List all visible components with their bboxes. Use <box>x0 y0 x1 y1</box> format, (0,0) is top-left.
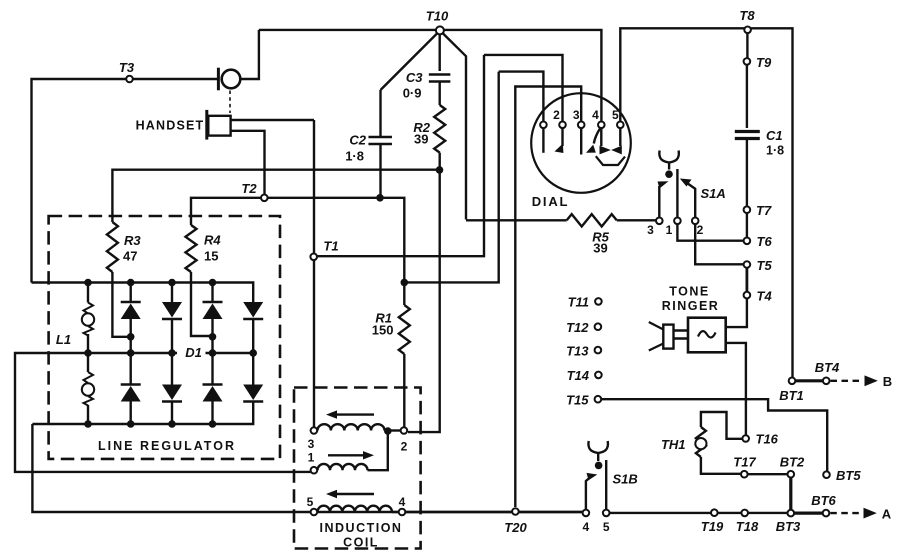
terminal T19 <box>711 509 718 516</box>
wire BT3 to BT6 <box>794 511 822 514</box>
terminal T13 <box>595 347 602 354</box>
svg-text:C2: C2 <box>349 133 366 148</box>
wire mic/T1 vertical down to induction coil terminal 3 <box>313 120 315 427</box>
junction dots bridge middle rail <box>84 349 92 357</box>
terminal T7 <box>744 206 751 213</box>
junction dots bridge top rail <box>84 279 92 287</box>
S1B contact 4 with moving arm <box>583 510 590 517</box>
svg-text:4: 4 <box>592 108 599 122</box>
node C2/T2-wire junction <box>376 194 384 202</box>
svg-text:T17: T17 <box>733 455 756 470</box>
terminal T16 <box>742 435 749 442</box>
S1B contact 5 <box>603 510 610 517</box>
wire T17 to BT2 <box>748 473 788 475</box>
wire T10 diagonal to R5 feed <box>443 34 466 220</box>
dashed handset link <box>229 91 231 114</box>
svg-text:C1: C1 <box>766 128 783 143</box>
svg-text:2: 2 <box>401 440 408 454</box>
svg-text:T3: T3 <box>119 60 135 75</box>
svg-text:L1: L1 <box>56 332 71 347</box>
svg-text:5: 5 <box>612 108 619 122</box>
resistor R3 <box>107 222 118 272</box>
node R2/main-wire junction <box>436 166 444 174</box>
svg-text:1·8: 1·8 <box>766 144 784 158</box>
svg-text:R3: R3 <box>124 233 141 248</box>
bridge middle rail left <box>88 352 177 354</box>
svg-text:RINGER: RINGER <box>662 299 720 313</box>
dial body circle <box>531 93 631 193</box>
svg-text:BT5: BT5 <box>836 468 861 483</box>
terminal T18 <box>741 510 748 517</box>
wire T10 to C3 <box>439 35 441 72</box>
wire R2 to junction <box>439 153 441 170</box>
dial contact 2 <box>559 122 566 129</box>
tone ringer coupling <box>674 331 689 339</box>
switch S1B off-normal fork <box>588 441 608 453</box>
wire main horizontal (R3 top to R2 junction) <box>112 170 439 222</box>
wire dial contact 3 riser to T20 <box>515 87 581 508</box>
svg-text:BT2: BT2 <box>780 455 805 470</box>
capacitor C2 <box>379 90 381 137</box>
svg-text:T6: T6 <box>757 234 773 249</box>
terminal T5 <box>744 261 751 268</box>
wire S1A contact 2 to T5 <box>695 224 743 264</box>
wire T10 horizontal right to dial contact 4 <box>444 30 602 122</box>
thermistor TH1 <box>701 412 742 439</box>
handset microphone (transmitter) <box>205 110 208 140</box>
wire T5 to T4 <box>746 268 749 292</box>
svg-text:COIL: COIL <box>343 536 379 550</box>
dial contact 5 pulsing contacts <box>617 122 624 129</box>
svg-text:C3: C3 <box>406 70 423 85</box>
svg-text:HANDSET: HANDSET <box>136 119 205 133</box>
terminal T3 <box>126 76 133 83</box>
rectifier D1 column 2 <box>171 283 173 425</box>
svg-text:47: 47 <box>123 249 137 264</box>
terminal T17 <box>741 471 748 478</box>
wire left loop: T3 line down to regulator top rail <box>32 79 219 283</box>
wire tone ringer lower to T16 <box>726 343 746 435</box>
terminal BT4 <box>823 378 830 385</box>
svg-text:2: 2 <box>697 223 704 237</box>
wire T9 to C1 <box>746 65 748 128</box>
terminal T6 <box>744 238 751 245</box>
induction coil winding 1 (terminals 3-2) <box>311 427 318 434</box>
svg-text:5: 5 <box>307 495 314 509</box>
svg-text:15: 15 <box>204 249 218 264</box>
svg-text:3: 3 <box>647 223 654 237</box>
S1A contact 1 <box>674 218 681 225</box>
terminal T9 <box>744 58 751 65</box>
node R1 top junction <box>401 279 409 287</box>
svg-text:A: A <box>882 507 892 522</box>
svg-text:T11: T11 <box>568 295 589 310</box>
wire T7 to T6 <box>746 213 748 238</box>
wire dial contact 1 riser top run <box>499 72 544 122</box>
svg-text:DIAL: DIAL <box>532 194 570 209</box>
wire T15 to BT5 (with jog) <box>601 399 827 471</box>
svg-text:1: 1 <box>308 451 315 465</box>
induction coil dashed enclosure <box>294 388 421 549</box>
terminal T1 <box>310 253 317 260</box>
svg-text:T14: T14 <box>567 368 590 383</box>
wire bottom rail to main bottom run <box>32 424 582 512</box>
svg-text:4: 4 <box>583 520 590 534</box>
svg-text:2: 2 <box>553 108 560 122</box>
capacitor C1 <box>735 132 760 139</box>
svg-text:1: 1 <box>666 223 673 237</box>
svg-text:3: 3 <box>573 108 580 122</box>
dashed lead to A <box>830 512 862 514</box>
wire R5 left lead <box>466 219 567 221</box>
svg-text:S1A: S1A <box>701 186 726 201</box>
wire T10 horizontal left <box>259 29 436 31</box>
svg-text:INDUCTION: INDUCTION <box>320 521 403 535</box>
wire C1 to T7 <box>746 139 748 207</box>
svg-text:3: 3 <box>308 437 315 451</box>
junction dots bridge bottom rail <box>84 420 92 428</box>
dial contact 1 (unnumbered) <box>540 122 547 129</box>
svg-text:T8: T8 <box>739 8 755 23</box>
svg-text:T4: T4 <box>757 289 773 304</box>
terminal T10 <box>436 26 444 34</box>
node S1B actuator dot <box>595 462 603 470</box>
wire R5 to S1A contact 3 <box>617 219 656 221</box>
wire mic bottom to T2 <box>231 131 265 195</box>
wire L1 mid tap to induction coil terminal 1 <box>15 353 311 472</box>
rectifier D1 column 4 <box>252 319 254 385</box>
svg-text:39: 39 <box>414 132 428 147</box>
svg-text:T10: T10 <box>426 9 449 24</box>
terminal T4 <box>744 292 751 299</box>
svg-text:D1: D1 <box>185 345 202 360</box>
S1A contact 3 with moving arm <box>656 218 663 225</box>
svg-text:T5: T5 <box>757 258 773 273</box>
svg-text:39: 39 <box>593 241 607 256</box>
tone ringer oscillator box <box>688 318 726 353</box>
svg-text:1·8: 1·8 <box>345 149 364 164</box>
tone ringer sounder (speaker) <box>663 325 673 349</box>
svg-text:T20: T20 <box>504 520 527 535</box>
svg-text:S1B: S1B <box>613 472 638 487</box>
svg-text:BT3: BT3 <box>776 519 801 534</box>
wire BT1 to BT4 <box>795 379 822 382</box>
bridge bottom rail <box>32 402 253 425</box>
svg-text:T15: T15 <box>566 393 589 408</box>
svg-text:T7: T7 <box>756 203 772 218</box>
terminal BT6 <box>823 510 830 517</box>
wire R3 bottom to bridge column 1 <box>112 272 130 337</box>
svg-text:4: 4 <box>399 495 406 509</box>
wire junction down to induction coil terminal 2 <box>408 170 440 432</box>
wire earpiece to T10 top wire <box>240 30 259 79</box>
inductor L1 <box>87 283 89 425</box>
svg-text:150: 150 <box>372 323 394 338</box>
rectifier D1 column 3 <box>211 283 213 425</box>
svg-text:5: 5 <box>603 520 610 534</box>
svg-text:B: B <box>883 374 892 389</box>
svg-text:LINE REGULATOR: LINE REGULATOR <box>98 439 236 453</box>
svg-text:T18: T18 <box>736 519 759 534</box>
dial contact 4 <box>598 122 605 129</box>
wire T4 down to tone ringer <box>726 298 747 327</box>
svg-text:T9: T9 <box>756 55 772 70</box>
terminal BT3 <box>788 510 795 517</box>
terminal T12 <box>595 323 602 330</box>
line regulator dashed enclosure <box>49 216 280 459</box>
wire S1A contact 1 to T6 <box>677 224 743 241</box>
induction coil winding 2 (terminal 1) <box>311 467 318 474</box>
terminal BT2 <box>788 471 795 478</box>
handset earpiece (receiver) <box>217 68 220 91</box>
svg-text:T1: T1 <box>323 239 338 254</box>
svg-text:TH1: TH1 <box>661 437 686 452</box>
switch S1A off-normal fork <box>659 151 679 163</box>
resistor R1 <box>403 282 405 305</box>
wire T10 diagonal to C2 <box>381 34 438 91</box>
wire induction coil terminal 4 to S1B contact 4 <box>405 511 582 513</box>
dial contact 3 <box>578 122 585 129</box>
terminal T2 <box>261 195 268 202</box>
wire R1 junction to dial contact 1 riser <box>404 72 498 283</box>
rectifier D1 column 1 <box>129 283 131 425</box>
bridge top rail <box>32 283 254 303</box>
resistor R2 <box>434 105 445 153</box>
induction coil winding 3 (terminals 5-4) <box>311 509 318 516</box>
svg-text:R4: R4 <box>204 233 221 248</box>
wire T2 run: R4 top, T2, C2 junction, corner down to R1 junction <box>191 198 404 283</box>
terminal T15 <box>595 396 602 403</box>
svg-text:T2: T2 <box>241 181 257 196</box>
svg-text:T12: T12 <box>566 320 589 335</box>
terminal T20 <box>512 508 519 515</box>
wire dial contact 5 riser / T8 run <box>620 28 792 377</box>
svg-text:BT1: BT1 <box>779 388 804 403</box>
wire S1B contact 5 to BT3 <box>610 512 788 514</box>
terminal T14 <box>595 372 602 379</box>
wire T1 to dial contact 2 riser <box>317 55 484 256</box>
svg-text:0·9: 0·9 <box>403 86 422 101</box>
resistor R5 <box>567 214 617 226</box>
terminal BT5 <box>823 471 830 478</box>
dashed lead to B <box>831 380 864 382</box>
wire R4 bottom to bridge column 3 <box>191 272 213 336</box>
svg-text:BT6: BT6 <box>811 493 836 508</box>
svg-text:T16: T16 <box>756 432 779 447</box>
junction dots R3/R4 taps <box>127 333 135 341</box>
node S1A actuator dot <box>665 170 673 178</box>
bridge middle rail right <box>206 352 254 354</box>
wire C3 to R2 <box>439 82 441 106</box>
terminal T8 <box>744 27 751 34</box>
terminal T11 <box>595 298 602 305</box>
terminal BT1 <box>789 378 796 385</box>
wire dial contact 2 riser top run <box>484 55 563 122</box>
S1A contact 2 with moving arm <box>692 218 699 225</box>
svg-text:T13: T13 <box>566 344 589 359</box>
wire BT2 to BT3 <box>789 478 792 510</box>
resistor R4 <box>186 225 197 272</box>
wire T8 to T9 <box>746 33 748 58</box>
capacitor C3 <box>429 75 451 82</box>
svg-text:T19: T19 <box>701 519 724 534</box>
svg-text:BT4: BT4 <box>815 360 840 375</box>
wire mic top to T1 vertical <box>231 119 314 121</box>
svg-text:TONE: TONE <box>669 285 710 299</box>
